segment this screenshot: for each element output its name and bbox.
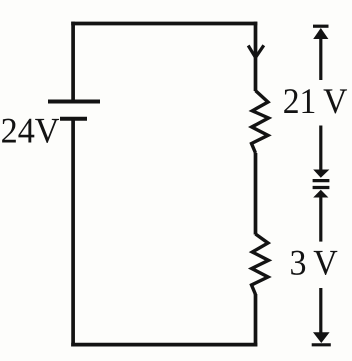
wire right middle	[254, 153, 258, 235]
arrowhead down (bottom of 3V arrow)	[313, 332, 330, 343]
resistor R1	[252, 91, 269, 153]
current direction arrow	[248, 45, 264, 57]
arrow line 3V upper segment	[319, 196, 322, 242]
battery B1 long plate (+)	[48, 100, 100, 104]
arrow line 21V lower segment	[319, 126, 322, 172]
tick middle lower (3V measurement start)	[313, 186, 330, 189]
wire left upper	[71, 22, 75, 102]
wire right upper	[254, 22, 258, 91]
svg-text:21 V: 21 V	[283, 81, 348, 121]
wire bottom	[71, 343, 257, 347]
svg-text:3 V: 3 V	[290, 243, 338, 283]
arrow line 3V lower segment	[319, 288, 322, 333]
arrowhead down (bottom of 21V arrow)	[313, 170, 329, 178]
battery B1 short plate (-)	[60, 117, 87, 121]
wire top	[71, 22, 257, 26]
arrow line 21V upper segment	[319, 37, 322, 80]
svg-text:24V: 24V	[1, 111, 60, 151]
resistor R2	[252, 234, 269, 294]
arrowhead up (top of 21V arrow)	[313, 28, 328, 39]
wire right lower	[254, 294, 258, 346]
arrowhead up (top of 3V arrow)	[313, 190, 328, 198]
tick middle upper (21V measurement end)	[313, 179, 330, 182]
wire left lower	[71, 119, 75, 347]
tick bottom (3V measurement)	[312, 343, 331, 346]
tick top (21V measurement)	[313, 25, 329, 28]
